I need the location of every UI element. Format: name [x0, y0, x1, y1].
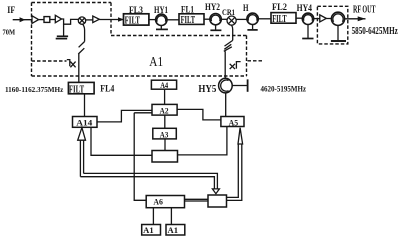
svg-text:HY2: HY2	[205, 2, 220, 12]
svg-text:FILT: FILT	[181, 15, 196, 26]
svg-text:HY5: HY5	[198, 84, 216, 95]
svg-text:FILT: FILT	[125, 16, 140, 27]
svg-text:FL3: FL3	[129, 5, 143, 15]
svg-text:A3: A3	[160, 129, 169, 139]
svg-text:FL4: FL4	[100, 84, 114, 94]
svg-text:IF: IF	[7, 5, 15, 15]
svg-text:CR1: CR1	[222, 8, 235, 17]
svg-text:A2: A2	[160, 106, 169, 116]
svg-text:A1: A1	[143, 226, 154, 235]
svg-text:A4: A4	[160, 80, 169, 90]
svg-text:FILT: FILT	[69, 85, 84, 96]
svg-text:5850-6425MHz: 5850-6425MHz	[352, 26, 399, 37]
svg-text:FL2: FL2	[272, 2, 287, 12]
svg-text:HY4: HY4	[297, 3, 313, 13]
svg-text:1160-1162.375MHz: 1160-1162.375MHz	[5, 85, 64, 94]
svg-text:H: H	[243, 3, 249, 13]
svg-text:A1: A1	[168, 226, 179, 235]
svg-text:A5: A5	[229, 118, 239, 128]
svg-text:A14: A14	[76, 117, 93, 127]
svg-text:FILT: FILT	[272, 14, 287, 25]
svg-text:A6: A6	[153, 196, 163, 206]
svg-text:RF OUT: RF OUT	[353, 4, 376, 15]
svg-text:70M: 70M	[3, 29, 16, 37]
svg-text:4620-5195MHz: 4620-5195MHz	[261, 84, 307, 93]
svg-text:A1: A1	[149, 55, 163, 70]
svg-text:HY1: HY1	[154, 5, 168, 15]
svg-text:FL1: FL1	[181, 4, 194, 14]
